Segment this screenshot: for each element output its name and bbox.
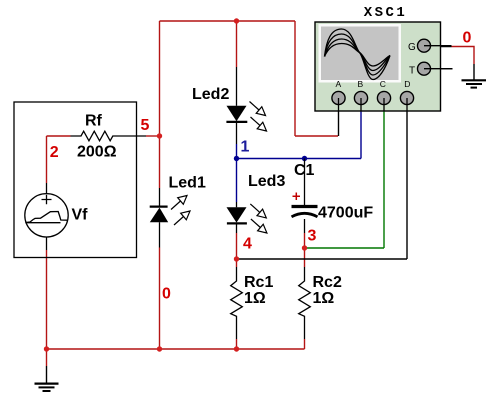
terminal pin stubs over circles [339, 46, 453, 111]
wire green C terminal down [383, 111, 385, 248]
wire net5 horizontal to A terminal [295, 135, 338, 137]
XSC1 terminal G [418, 39, 431, 52]
wire blue node1 horizontal to B column [237, 158, 362, 160]
Led2 light arrow upper [250, 102, 266, 116]
wire bottom ground rail [47, 348, 305, 350]
XSC1 screen waveform curves [325, 29, 391, 80]
svg-text:0: 0 [463, 29, 472, 46]
svg-text:3: 3 [308, 228, 317, 245]
wire black G terminal stub [431, 46, 452, 48]
svg-text:T: T [409, 65, 415, 76]
wire source Vf bottom to bottom rail [46, 250, 48, 349]
wire blue Led2 bottom to node1 [236, 144, 238, 159]
svg-text:XSC1: XSC1 [364, 5, 408, 21]
svg-text:Rc1: Rc1 [244, 274, 273, 291]
wire Rf right red lead to node 5 [146, 135, 160, 137]
svg-text:1Ω: 1Ω [313, 290, 335, 307]
Led1 light arrow upper [171, 196, 187, 210]
LED Led3 (pointing down) [227, 202, 267, 233]
svg-text:1Ω: 1Ω [244, 290, 266, 307]
wire Led3 bottom to node 4 [236, 233, 238, 267]
junction dot bottom rail Rc1 [234, 346, 239, 351]
XSC1 screen white frame [319, 24, 402, 83]
wire black D horizontal to node 4 [237, 258, 408, 260]
svg-text:Rc2: Rc2 [313, 274, 342, 291]
node 3 junction dot [302, 245, 307, 250]
svg-text:1: 1 [241, 139, 250, 156]
svg-text:4: 4 [243, 236, 252, 253]
junction dot bottom rail left (ground) [44, 346, 49, 351]
wire top rail net5 [160, 20, 296, 22]
resistor Rc2 [299, 267, 311, 339]
XSC1 terminal A [332, 91, 345, 104]
wire black A terminal stub down [338, 98, 340, 136]
svg-text:A: A [335, 79, 341, 89]
svg-text:C: C [380, 79, 386, 89]
XSC1 terminal C [377, 91, 390, 104]
wire blue B terminal vertical [360, 111, 362, 159]
svg-text:2: 2 [50, 144, 59, 161]
wire black right-ground stub [473, 64, 475, 80]
wire black T terminal stub [431, 68, 453, 70]
wire left rail down from top to node 5 [159, 21, 161, 136]
XSC1 terminal D [400, 91, 413, 104]
ground left [35, 366, 59, 391]
resistor Rf [71, 131, 147, 141]
svg-text:Led1: Led1 [169, 175, 206, 192]
wire net5 to scope A: vertical at right of top rail [294, 21, 296, 136]
wire node 2 down to source Vf [46, 136, 48, 183]
Led3 light arrow upper [250, 204, 266, 218]
Led1 light arrow lower [174, 211, 190, 225]
wire Led1 bottom to bottom rail [159, 248, 161, 350]
wire C1 bottom to node 3 and Rc2 top [304, 233, 306, 267]
wire black B terminal stub [360, 98, 362, 111]
svg-text:Led3: Led3 [248, 173, 285, 190]
wire node5 to Led1 top [159, 136, 161, 188]
source Vf [25, 183, 68, 250]
wire scope G terminal red to ground [452, 47, 475, 65]
wire Rc1 bottom to rail [236, 339, 238, 349]
LED Led2 (pointing down) [226, 67, 266, 144]
ground right (scope) [462, 80, 487, 87]
wire black D terminal down [406, 98, 408, 259]
box around source and Rf [14, 102, 137, 258]
resistor Rc1 [231, 267, 243, 339]
Led3 light arrow lower [251, 219, 267, 233]
Led2 light arrow lower [251, 117, 267, 131]
svg-text:D: D [404, 79, 410, 89]
svg-text:Vf: Vf [72, 207, 89, 224]
oscilloscope XSC1 body [315, 22, 441, 111]
junction dot C1 top blue [302, 156, 307, 161]
wire green horizontal to node 3 [305, 247, 385, 249]
wire blue node1 down to Led3 [236, 159, 238, 203]
wire bottom rail corner up to Rc2 bottom [304, 339, 306, 349]
junction dot bottom rail Led1 [157, 346, 162, 351]
wire ground stub below rail left [46, 349, 48, 366]
wire Led2 top from rail [236, 21, 238, 67]
node 1 junction dot blue [234, 156, 239, 161]
capacitor C1 [292, 159, 318, 234]
svg-text:G: G [408, 42, 416, 53]
XSC1 screen [321, 27, 399, 81]
XSC1 terminal B [354, 91, 367, 104]
svg-text:C1: C1 [294, 162, 315, 179]
svg-text:5: 5 [141, 117, 150, 134]
svg-text:Led2: Led2 [192, 86, 229, 103]
junction dot top rail [234, 18, 239, 23]
node 5 junction dot [157, 133, 162, 138]
svg-text:4700uF: 4700uF [318, 205, 373, 222]
svg-text:B: B [357, 79, 363, 89]
wire black C terminal stub [383, 98, 385, 111]
svg-text:0: 0 [162, 286, 171, 303]
svg-text:200Ω: 200Ω [77, 144, 117, 161]
LED Led1 (pointing up) [150, 188, 190, 248]
svg-text:Rf: Rf [85, 112, 103, 129]
XSC1 terminal T [418, 62, 431, 75]
C1 plus sign [293, 193, 301, 201]
node 4 junction dot [234, 256, 239, 261]
wire Rf left red lead from node 2 [47, 135, 71, 137]
